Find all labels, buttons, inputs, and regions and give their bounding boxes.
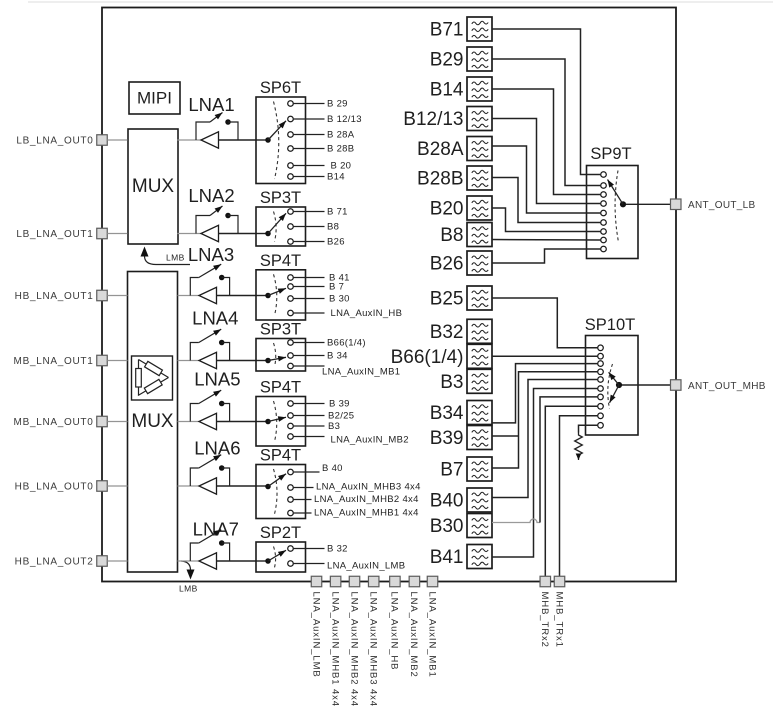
switch SP10T actuator arm up [609, 372, 619, 385]
wire riser B30 to SP10T throw 7 [540, 397, 597, 523]
switch SP10T throw contact 6 [598, 386, 604, 392]
svg-text:MIPI: MIPI [137, 89, 172, 108]
switch SP10T box [586, 336, 639, 436]
svg-text:B 39: B 39 [329, 399, 350, 410]
switch SP4T3 throw contact 1 [288, 469, 294, 475]
svg-text:MB_LNA_OUT1: MB_LNA_OUT1 [14, 356, 94, 367]
svg-text:SP6T: SP6T [260, 79, 301, 97]
wire MUX to LNA2 input [178, 233, 202, 235]
LNA2 bypass switch [196, 216, 210, 234]
switch SP3T1 dashed arc [274, 212, 277, 242]
switch SP4T3 stub wire 3 [294, 499, 312, 501]
svg-text:LNA3: LNA3 [188, 244, 234, 265]
wire common SP4T-2 [256, 421, 268, 423]
switch SP4T1 throw contact 1 [288, 275, 294, 281]
filter B7 [467, 457, 492, 481]
port pad LNA_AuxIN_MHB2 4x4 [349, 576, 360, 587]
switch SP9T common pole dot [620, 201, 626, 207]
switch SP3T2 stub wire 3 [294, 365, 325, 367]
wire LNA5 output to switch [217, 421, 257, 423]
switch SP10T throw contact 5 [598, 377, 604, 383]
switch SP3T2 dashed arc [274, 343, 276, 367]
svg-text:B20: B20 [430, 199, 464, 220]
switch SP10T throw contact 7 [598, 394, 604, 400]
port pad LNA_AuxIN_MHB3 4x4 [368, 576, 379, 587]
svg-text:SP4T: SP4T [260, 379, 301, 397]
switch SP3T1 stub wire 2 [294, 226, 325, 228]
switch SP4T1 stub wire 4 [294, 312, 325, 314]
svg-text:LNA5: LNA5 [194, 369, 240, 390]
faint page rule at very top [28, 1, 773, 3]
svg-text:B40: B40 [430, 491, 464, 512]
switch SP9T throw contact 2 [601, 183, 607, 189]
svg-text:LNA_AuxIN_MB2: LNA_AuxIN_MB2 [331, 435, 409, 446]
switch SP6T throw contact 1 [288, 101, 294, 107]
switch SP6T stub wire 2 [294, 118, 325, 120]
switch SP4T2 box [256, 397, 306, 447]
svg-text:LNA_AuxIN_MHB1 4x4: LNA_AuxIN_MHB1 4x4 [329, 592, 340, 707]
switch SP6T stub wire 5 [294, 165, 325, 167]
svg-text:B29: B29 [430, 50, 464, 71]
filter B71 [467, 17, 492, 41]
switch SP4T3 stub wire 4 [294, 512, 312, 514]
port pad ANT_OUT_MHB [671, 380, 682, 391]
switch SP6T actuator arm [268, 121, 286, 140]
LNA5 amplifier triangle [199, 413, 217, 429]
switch SP3T1 actuator arm [268, 213, 286, 233]
switch SP9T throw contact 5 [601, 210, 607, 216]
svg-text:MUX: MUX [131, 411, 174, 432]
wire MUX to LNA7 input [178, 560, 200, 562]
svg-text:B8: B8 [440, 225, 463, 246]
svg-text:B 34: B 34 [327, 351, 348, 362]
MIPI block U_MIPI [129, 82, 180, 114]
port pad LB_LNA_OUT1 [97, 228, 108, 239]
filter B20 [467, 196, 492, 220]
svg-text:B 7: B 7 [329, 282, 344, 293]
MHB MUX block (bottom) [128, 272, 178, 573]
switch SP4T1 stub wire 2 [294, 286, 325, 288]
wire MUX to LNA3 input [178, 295, 200, 297]
wire B25 to SP10T throw 1 [492, 298, 597, 348]
filter B28A [467, 137, 492, 161]
svg-text:B26: B26 [430, 254, 464, 275]
svg-text:B66(1/4): B66(1/4) [327, 338, 366, 349]
svg-text:B2/25: B2/25 [328, 411, 354, 422]
wire LB_LNA_OUT0 to MUX [107, 139, 127, 141]
LNA4 amplifier triangle [199, 352, 217, 368]
svg-text:LNA_AuxIN_MHB3 4x4: LNA_AuxIN_MHB3 4x4 [316, 482, 421, 493]
svg-text:HB_LNA_OUT1: HB_LNA_OUT1 [15, 291, 94, 302]
switch SP9T throw contact 6 [601, 220, 607, 226]
switch SP6T box [256, 97, 306, 184]
switch SP10T throw contact 1 [598, 345, 604, 351]
wire B34 to SP10T throw 3 [492, 364, 597, 423]
wire LNA6 output to switch [217, 485, 257, 487]
switch SP9T dashed arc [615, 171, 618, 242]
svg-text:B32: B32 [430, 322, 464, 343]
wire common SP2T [256, 560, 268, 562]
wire MUX to LNA5 input [178, 421, 200, 423]
svg-text:SP4T: SP4T [260, 447, 301, 465]
svg-text:B 28A: B 28A [327, 130, 355, 141]
switch SP4T3 throw contact 2 [288, 485, 294, 491]
svg-text:LNA_AuxIN_MHB2 4x4: LNA_AuxIN_MHB2 4x4 [314, 494, 419, 505]
svg-text:B 32: B 32 [327, 544, 348, 555]
filter B8 [467, 223, 492, 247]
switch SP9T box [587, 166, 639, 259]
svg-text:LNA2: LNA2 [188, 185, 234, 206]
switch SP3T1 common pole dot [265, 231, 271, 237]
svg-text:HB_LNA_OUT2: HB_LNA_OUT2 [15, 557, 94, 568]
filter B34 [467, 401, 492, 425]
svg-text:ANT_OUT_MHB: ANT_OUT_MHB [688, 381, 766, 392]
filter B28B [467, 166, 492, 190]
switch SP6T throw contact 2 [288, 116, 294, 122]
filter B41 [467, 545, 492, 569]
switch SP3T2 actuator arm [268, 357, 286, 360]
svg-text:LNA7: LNA7 [193, 519, 239, 540]
wire MUX to LNA1 input [178, 139, 202, 141]
svg-text:B12/13: B12/13 [403, 109, 463, 130]
switch SP3T1 box [256, 207, 306, 246]
svg-text:B41: B41 [430, 547, 464, 568]
switch SP4T2 dashed arc [274, 401, 277, 442]
switch SP2T common pole dot [265, 558, 271, 564]
wire common SP4T-3 [256, 485, 268, 487]
port pad MB_LNA_OUT1 [97, 355, 108, 366]
wire B39 join to B7 riser [492, 435, 519, 437]
wire SP10T common to ANT_OUT_MHB [622, 384, 671, 386]
svg-text:MHB_TRx2: MHB_TRx2 [539, 592, 550, 648]
filter B14 [467, 77, 492, 101]
svg-text:LNA_AuxIN_MB1: LNA_AuxIN_MB1 [322, 367, 400, 378]
wire MUX to LNA6 input [178, 485, 200, 487]
svg-text:LNA_AuxIN_MHB3 4x4: LNA_AuxIN_MHB3 4x4 [368, 592, 379, 707]
svg-text:LNA_AuxIN_MHB2 4x4: LNA_AuxIN_MHB2 4x4 [348, 592, 359, 707]
switch SP4T3 stub wire 2 [294, 487, 314, 489]
svg-text:LB_LNA_OUT0: LB_LNA_OUT0 [16, 136, 93, 147]
filter B12/13 [467, 107, 492, 131]
svg-text:B 20: B 20 [331, 161, 352, 172]
svg-text:B3: B3 [328, 421, 340, 432]
switch SP9T throw contact 1 [601, 172, 607, 178]
switch SP2T throw contact 2 [288, 561, 294, 567]
LNA6 bypass switch [190, 468, 199, 486]
switch SP4T3 stub wire 1 [294, 471, 320, 473]
resistor termination on SP10T throw 10 [575, 433, 583, 461]
switch SP4T3 throw contact 3 [288, 497, 294, 503]
switch SP3T1 throw contact 2 [288, 224, 294, 230]
port pad LNA_AuxIN_LMB [311, 576, 322, 587]
switch SP6T stub wire 1 [294, 103, 325, 105]
svg-text:MHB_TRx1: MHB_TRx1 [553, 592, 564, 648]
wire B7 to SP10T throw 4 [492, 372, 597, 468]
wire B8 to SP9T throw 8 [492, 239, 600, 242]
switch SP3T2 box [256, 339, 306, 372]
svg-text:B8: B8 [327, 222, 339, 233]
switch SP3T2 common pole dot [265, 358, 271, 364]
switch SP2T stub wire 1 [294, 548, 325, 550]
filter B66(1/4) [467, 344, 492, 368]
filter B26 [467, 251, 492, 275]
svg-text:LNA4: LNA4 [192, 308, 238, 329]
svg-text:LNA_AuxIN_MB2: LNA_AuxIN_MB2 [408, 592, 419, 678]
svg-text:SP9T: SP9T [590, 145, 631, 163]
svg-text:LNA6: LNA6 [194, 438, 240, 459]
svg-text:LNA_AuxIN_MB1: LNA_AuxIN_MB1 [426, 592, 437, 678]
port pad HB_LNA_OUT1 [97, 290, 108, 301]
switch SP10T throw contact 9 [598, 413, 604, 419]
switch SP4T3 box [256, 465, 306, 519]
switch SP10T throw contact 2 [598, 353, 604, 359]
wire common SP3T-1 [256, 233, 268, 235]
switch SP3T2 throw contact 1 [288, 340, 294, 346]
svg-text:B 12/13: B 12/13 [327, 114, 362, 125]
svg-text:SP4T: SP4T [260, 252, 301, 270]
switch SP6T stub wire 3 [294, 134, 325, 136]
switch SP3T2 throw contact 2 [288, 353, 294, 359]
switch SP3T1 throw contact 1 [288, 209, 294, 215]
port pad LNA_AuxIN_HB [390, 576, 401, 587]
switch SP3T1 stub wire 1 [294, 211, 325, 213]
svg-text:B66(1/4): B66(1/4) [391, 347, 464, 368]
switch SP9T actuator arm [608, 180, 624, 205]
switch SP6T throw contact 4 [288, 146, 294, 152]
switch SP4T3 dashed arc [274, 469, 278, 514]
wire LB_LNA_OUT1 to MUX [107, 233, 127, 235]
switch SP4T3 actuator arm [268, 474, 286, 487]
wire LNA4 output to switch [217, 360, 257, 362]
wire B40 to SP10T throw 5 [492, 380, 597, 498]
svg-text:SP3T: SP3T [260, 189, 301, 207]
port pad HB_LNA_OUT2 [97, 556, 108, 567]
diplexer icon inside MHB MUX [132, 356, 173, 400]
svg-text:LMB: LMB [166, 253, 185, 263]
switch SP2T dashed arc [274, 547, 276, 568]
switch SP4T1 throw contact 3 [288, 296, 294, 302]
wire SP9T common to ANT_OUT_LB [626, 203, 671, 205]
wire B28A to SP9T throw 5 [492, 146, 600, 213]
filter B39 [467, 426, 492, 450]
svg-text:B71: B71 [430, 20, 464, 41]
wire B29 to SP9T throw 2 [492, 59, 600, 186]
svg-text:LNA_AuxIN_LMB: LNA_AuxIN_LMB [310, 592, 321, 678]
switch SP2T stub wire 2 [294, 563, 325, 565]
wire SP10T throw 10 to termination resistor [579, 425, 598, 432]
LNA3 bypass switch [190, 278, 199, 296]
switch SP4T2 common pole dot [265, 419, 271, 425]
wire LNA1 output to switch [219, 139, 257, 141]
switch SP9T throw contact 7 [601, 229, 607, 235]
svg-text:LB_LNA_OUT1: LB_LNA_OUT1 [16, 229, 93, 240]
svg-text:LMB: LMB [179, 584, 198, 594]
switch SP6T common pole dot [265, 137, 271, 143]
svg-text:B 71: B 71 [327, 207, 348, 218]
switch SP4T2 stub wire 4 [294, 436, 325, 438]
switch SP4T1 box [256, 270, 306, 320]
switch SP10T throw contact 8 [598, 404, 604, 410]
switch SP9T throw contact 8 [601, 237, 607, 243]
LNA7 bypass switch [190, 543, 199, 561]
LNA7 amplifier triangle [199, 553, 217, 569]
switch SP4T2 throw contact 3 [288, 423, 294, 429]
switch SP10T throw contact 3 [598, 361, 604, 367]
switch SP9T throw contact 9 [601, 246, 607, 252]
svg-text:B26: B26 [327, 237, 345, 248]
switch SP3T2 stub wire 1 [294, 342, 325, 344]
wire B20 to SP9T throw 7 [492, 208, 600, 232]
switch SP4T2 throw contact 4 [288, 434, 294, 440]
svg-text:B3: B3 [440, 372, 463, 393]
port pad MHB_TRx1 [554, 576, 565, 587]
switch SP9T throw contact 3 [601, 192, 607, 198]
svg-text:B 28B: B 28B [327, 144, 354, 155]
LB MUX block (top) [128, 129, 178, 244]
wire HB_LNA_OUT0 to MUX [107, 485, 127, 487]
svg-text:B 40: B 40 [322, 463, 343, 474]
filter B30 [467, 514, 492, 538]
wire MB_LNA_OUT1 to MUX [107, 360, 127, 362]
switch SP2T box [256, 542, 306, 572]
LNA3 amplifier triangle [199, 287, 217, 303]
svg-text:HB_LNA_OUT0: HB_LNA_OUT0 [15, 482, 94, 493]
switch SP4T2 throw contact 2 [288, 413, 294, 419]
switch SP4T3 common pole dot [265, 484, 271, 490]
svg-text:B28A: B28A [417, 139, 464, 160]
svg-text:LNA_AuxIN_LMB: LNA_AuxIN_LMB [327, 561, 405, 572]
switch SP6T throw contact 5 [288, 163, 294, 169]
svg-text:B14: B14 [327, 172, 345, 183]
outer module boundary box [102, 8, 676, 582]
wire SP10T throw 8 to MHB_TRx2 pad [545, 406, 597, 576]
svg-text:MB_LNA_OUT0: MB_LNA_OUT0 [14, 417, 94, 428]
svg-text:B28B: B28B [417, 169, 463, 190]
switch SP4T1 actuator arm [268, 288, 286, 295]
svg-text:LNA_AuxIN_HB: LNA_AuxIN_HB [389, 592, 400, 671]
switch SP3T2 stub wire 2 [294, 355, 325, 357]
LNA4 bypass switch [190, 343, 199, 361]
port pad LNA_AuxIN_MHB1 4x4 [330, 576, 341, 587]
wire B28B to SP9T throw 6 [492, 178, 600, 223]
switch SP4T1 throw contact 4 [288, 310, 294, 316]
LNA5 bypass switch [190, 404, 199, 422]
arrow to ground [576, 454, 582, 461]
wire B66(1/4) to SP10T throw 2 [492, 355, 597, 357]
port pad LNA_AuxIN_MB2 [409, 576, 420, 587]
switch SP3T2 throw contact 3 [288, 363, 294, 369]
wire MUX to LNA4 input [178, 360, 200, 362]
wire HB_LNA_OUT1 to MUX [107, 295, 127, 297]
svg-text:B30: B30 [430, 516, 464, 537]
svg-text:B 29: B 29 [327, 99, 348, 110]
LNA1 amplifier triangle [201, 132, 219, 148]
wire HB_LNA_OUT2 to MUX [107, 560, 127, 562]
svg-text:SP10T: SP10T [585, 316, 635, 334]
wire B41 to SP10T throw 6 [492, 389, 597, 558]
svg-text:LNA_AuxIN_MHB1 4x4: LNA_AuxIN_MHB1 4x4 [314, 508, 419, 519]
svg-text:LNA1: LNA1 [188, 94, 234, 115]
wire B14 to SP9T throw 3 [492, 89, 600, 195]
svg-text:B34: B34 [430, 403, 464, 424]
switch SP10T common pole dot [616, 382, 622, 388]
svg-text:B25: B25 [430, 289, 464, 310]
switch SP9T throw contact 4 [601, 201, 607, 207]
switch SP6T throw contact 6 [288, 174, 294, 180]
switch SP2T throw contact 1 [288, 546, 294, 552]
wire LNA7 output to switch [217, 560, 257, 562]
switch SP6T stub wire 6 [294, 176, 325, 178]
LNA2 amplifier triangle [201, 225, 219, 241]
wire LNA3 output to switch [217, 295, 257, 297]
svg-text:MUX: MUX [132, 176, 175, 197]
switch SP4T1 stub wire 1 [294, 277, 325, 279]
switch SP6T dashed arc [274, 102, 279, 180]
svg-text:SP3T: SP3T [260, 321, 301, 339]
switch SP4T1 dashed arc [274, 274, 277, 315]
svg-text:B14: B14 [430, 80, 464, 101]
LMB tap arrow at LNA7 row to bottom [181, 561, 191, 570]
filter B29 [467, 47, 492, 71]
filter B40 [467, 488, 492, 512]
switch SP4T2 actuator arm [268, 417, 286, 421]
wire LNA2 output to switch [219, 233, 257, 235]
LNA6 amplifier triangle [199, 478, 217, 494]
switch SP10T throw contact 4 [598, 369, 604, 375]
switch SP4T2 stub wire 3 [294, 425, 325, 427]
port pad ANT_OUT_LB [671, 199, 682, 210]
port pad MHB_TRx2 [540, 576, 551, 587]
wire SP10T throw 9 to MHB_TRx1 pad [560, 416, 598, 576]
switch SP4T1 stub wire 3 [294, 298, 325, 300]
switch SP4T3 throw contact 4 [288, 510, 294, 516]
svg-text:ANT_OUT_LB: ANT_OUT_LB [688, 200, 755, 211]
filter B25 [467, 286, 492, 310]
switch SP4T2 stub wire 2 [294, 415, 325, 417]
svg-text:LNA_AuxIN_HB: LNA_AuxIN_HB [331, 308, 403, 319]
LNA1 bypass switch [196, 122, 210, 140]
filter B32 [467, 319, 492, 343]
svg-text:B 30: B 30 [329, 294, 350, 305]
wire B26 to SP9T throw 9 [492, 249, 600, 263]
switch SP4T1 common pole dot [265, 293, 271, 299]
svg-text:B7: B7 [440, 460, 463, 481]
port pad LB_LNA_OUT0 [97, 135, 108, 146]
switch SP10T dashed arc [608, 364, 613, 409]
switch SP10T actuator arm down [610, 385, 620, 403]
port pad HB_LNA_OUT0 [97, 481, 108, 492]
switch SP2T actuator arm [268, 550, 286, 561]
switch SP3T1 stub wire 3 [294, 241, 325, 243]
port pad MB_LNA_OUT0 [97, 416, 108, 427]
switch SP4T2 stub wire 1 [294, 403, 325, 405]
wire B71 to SP9T throw 1 [492, 29, 600, 175]
switch SP6T stub wire 4 [294, 148, 325, 150]
port pad LNA_AuxIN_MB1 [427, 576, 438, 587]
svg-text:SP2T: SP2T [260, 524, 301, 542]
switch SP3T1 throw contact 3 [288, 239, 294, 245]
switch SP10T throw contact 10 [598, 423, 604, 429]
wire common SP6T [256, 139, 268, 141]
switch SP4T2 throw contact 1 [288, 401, 294, 407]
filter B3 [467, 369, 492, 393]
wire MB_LNA_OUT0 to MUX [107, 421, 127, 423]
switch SP4T1 throw contact 2 [288, 284, 294, 290]
wire common SP3T-2 [256, 360, 268, 362]
switch SP6T throw contact 3 [288, 132, 294, 138]
svg-text:B39: B39 [430, 428, 464, 449]
LMB feedback arrow into LB MUX [145, 256, 191, 265]
